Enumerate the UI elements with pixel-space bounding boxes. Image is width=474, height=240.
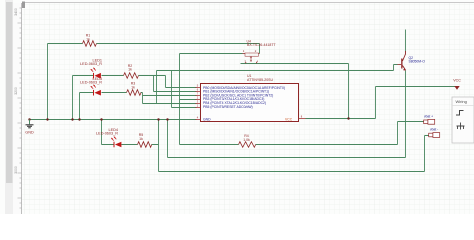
resistor R1 (83, 34, 97, 47)
wire layer (crisp) (30, 30, 457, 172)
wire left trunk (47, 44, 49, 120)
svg-text:GND: GND (25, 131, 34, 135)
svg-text:ATTINY85-20SU: ATTINY85-20SU (247, 78, 273, 82)
wire top net R1 row (48, 44, 260, 54)
top ruler line (22, 2, 474, 4)
svg-text:LED-0603_R: LED-0603_R (80, 80, 102, 84)
svg-text:1k: 1k (139, 137, 143, 141)
svg-text:LED-0603_R: LED-0603_R (96, 131, 118, 135)
wire collector (405, 30, 407, 52)
svg-text:vbat -: vbat - (430, 128, 438, 132)
node VCC (453, 79, 461, 90)
wire PB4 branch (143, 96, 197, 104)
wire switch pin1 long vertical to R4 (180, 54, 243, 145)
wire R4 row to vbat+ (180, 122, 424, 145)
wire switch pins34 to base tee (241, 64, 349, 119)
LED LED1 (80, 59, 102, 79)
resistor R4 (239, 134, 256, 147)
panel Wiring (452, 97, 474, 143)
wire LED4 row (102, 120, 159, 145)
svg-text:BX-TS-26-4418TT: BX-TS-26-4418TT (247, 43, 276, 47)
left scrollbar (5, 0, 13, 214)
svg-text:Wiring: Wiring (456, 99, 467, 104)
wire LED1 row to PB0 (73, 76, 197, 120)
svg-text:1.0k: 1.0k (243, 138, 250, 142)
left ruler (13, 3, 22, 214)
wire LED3 row to PB2 (80, 93, 197, 120)
svg-text:VCC: VCC (285, 117, 293, 121)
connector vbat+ (424, 114, 435, 124)
svg-text:GND: GND (203, 117, 211, 121)
wire emitter to GND rail (168, 71, 406, 158)
wire vbat- to GND rail (159, 120, 429, 172)
connector vbat- (429, 128, 440, 138)
svg-text:PB5 (PCINT5/RESET ADC0/dW): PB5 (PCINT5/RESET ADC0/dW) (203, 105, 253, 109)
svg-text:1k: 1k (131, 85, 135, 89)
svg-text:1k: 1k (128, 68, 132, 72)
ground (25, 120, 34, 135)
LED LED4 (96, 128, 121, 148)
svg-text:S8050M-O: S8050M-O (409, 60, 426, 64)
svg-text:3400: 3400 (14, 8, 18, 16)
svg-text:vbat +: vbat + (424, 114, 433, 118)
svg-text:LED-0603_R: LED-0603_R (80, 62, 102, 66)
wire PB5 branch (172, 71, 197, 108)
svg-text:VCC: VCC (453, 79, 461, 83)
wire VCC distribution above IC to base (157, 65, 398, 104)
IC U1 ATtiny85 (196, 74, 306, 121)
resistor R2 (124, 64, 139, 78)
transistor Q2 (398, 51, 426, 71)
resistor R3 (127, 82, 142, 96)
svg-text:1k: 1k (86, 37, 90, 41)
svg-text:3200: 3200 (14, 87, 18, 95)
junction dots (28, 117, 349, 120)
wire PB1 branch (154, 76, 197, 92)
wire IC VCC pin to VCC symbol (306, 87, 457, 119)
switch U4 (243, 40, 277, 64)
LED LED3 (80, 77, 102, 96)
svg-text:3000: 3000 (14, 166, 18, 174)
wire GND rail (30, 119, 197, 121)
resistor R5 (138, 133, 152, 147)
